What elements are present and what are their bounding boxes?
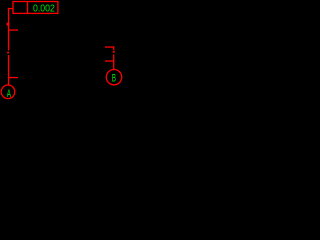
branch tick (right feeder top, y=47): [105, 46, 114, 47]
svg-text:0.002: 0.002: [33, 3, 55, 14]
wire: node B feeder lower segment: [113, 54, 114, 69]
breaker dot (left feeder): [7, 52, 9, 54]
junction dot: [7, 23, 10, 26]
wire: node A feeder upper segment: [8, 8, 9, 51]
breaker dot (right feeder): [113, 51, 115, 53]
node A: [1, 85, 15, 99]
branch stub (left feeder, y=30): [8, 29, 18, 30]
node B: [106, 70, 121, 85]
svg-text:B: B: [112, 73, 116, 85]
branch tick (left feeder, y=77.5): [8, 77, 18, 78]
wire: node A feeder lower segment: [8, 55, 9, 85]
wire: node B feeder upper segment: [113, 46, 114, 50]
value box: [13, 2, 58, 14]
branch tick (right feeder, y=61): [105, 60, 114, 61]
svg-text:A: A: [7, 88, 12, 100]
wire stub from value box to feeder: [8, 8, 14, 9]
